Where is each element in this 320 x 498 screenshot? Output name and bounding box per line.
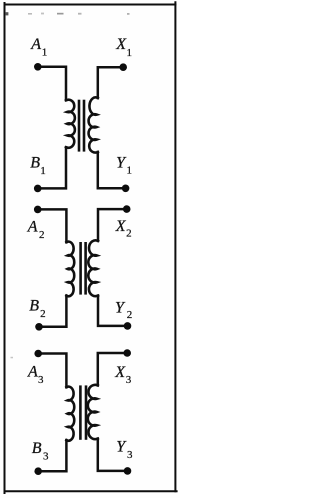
- svg-text:1: 1: [40, 165, 46, 177]
- svg-text:X: X: [115, 36, 127, 53]
- svg-text:X: X: [115, 218, 127, 235]
- svg-text:B: B: [29, 297, 39, 314]
- svg-text:2: 2: [126, 227, 132, 239]
- svg-text:B: B: [30, 154, 40, 171]
- svg-text:2: 2: [39, 229, 45, 241]
- svg-text:3: 3: [43, 450, 49, 462]
- svg-text:2: 2: [127, 309, 133, 321]
- svg-text:A: A: [27, 219, 38, 236]
- svg-text:A: A: [30, 36, 41, 53]
- svg-text:B: B: [32, 440, 42, 457]
- svg-text:1: 1: [127, 47, 133, 59]
- svg-text:A: A: [27, 364, 38, 381]
- svg-text:3: 3: [127, 449, 133, 461]
- svg-text:1: 1: [127, 165, 133, 177]
- svg-text:2: 2: [40, 308, 46, 320]
- svg-text:X: X: [114, 364, 126, 381]
- svg-text:1: 1: [42, 46, 48, 58]
- svg-text:3: 3: [38, 374, 44, 386]
- svg-text:3: 3: [126, 374, 132, 386]
